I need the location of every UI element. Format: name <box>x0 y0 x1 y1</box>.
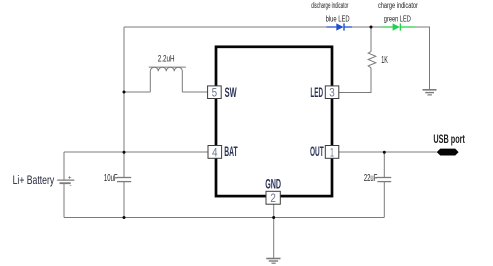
pin 4 box <box>208 145 222 159</box>
IC U1 body <box>216 47 332 196</box>
wire left rail lower (10uF bottom to bottom rail) <box>123 182 125 218</box>
svg-text:-: - <box>70 183 72 189</box>
svg-text:2: 2 <box>270 191 276 205</box>
LED D2 green (charge) <box>382 23 416 30</box>
wire bottom rail <box>64 217 384 219</box>
wire 22uF bottom stem <box>383 182 385 218</box>
svg-text:discharge indicator: discharge indicator <box>311 1 348 10</box>
junction node: OUT / 22uF <box>383 151 386 154</box>
wire battery bottom stem <box>63 183 65 217</box>
svg-text:5: 5 <box>212 86 218 100</box>
svg-text:10uF: 10uF <box>104 173 118 184</box>
junction node: BAT row / 10uF <box>123 151 126 154</box>
wire LED pin row to resistor <box>339 68 371 93</box>
svg-text:charge indicator: charge indicator <box>378 1 418 10</box>
wire inductor right to pin 5 <box>182 91 207 93</box>
battery BT1 <box>57 175 74 189</box>
wire top rail left <box>124 26 327 28</box>
wire GND pin stem <box>273 204 275 258</box>
svg-text:blue LED: blue LED <box>326 14 350 23</box>
svg-text:22uF: 22uF <box>364 173 377 184</box>
svg-text:+: + <box>68 175 72 181</box>
wire BAT row <box>64 151 208 153</box>
svg-text:Li+ Battery: Li+ Battery <box>13 173 55 187</box>
pin 2 box <box>266 191 280 205</box>
wire top rail right + drop to ground <box>415 27 429 90</box>
junction node: LEDs / resistor <box>370 26 373 29</box>
wire left rail upper (to 10uF top plate) <box>123 27 125 177</box>
svg-text:BAT: BAT <box>224 144 238 159</box>
wire inductor left <box>124 91 150 93</box>
resistor R1 1K <box>368 52 376 68</box>
svg-text:1K: 1K <box>381 54 388 66</box>
LED D1 blue (discharge) <box>327 23 353 30</box>
ground (bottom center) <box>266 259 280 264</box>
svg-text:LED: LED <box>310 85 323 100</box>
USB connector J1 <box>437 149 459 156</box>
svg-text:USB port: USB port <box>433 133 465 146</box>
wire OUT row to USB <box>339 151 437 153</box>
svg-text:green LED: green LED <box>384 14 411 23</box>
capacitor C1 10uF <box>117 178 131 182</box>
inductor L1 2.2uH <box>149 67 186 92</box>
capacitor C2 22uF <box>377 178 392 182</box>
wire 22uF top stem <box>383 152 385 177</box>
svg-text:1: 1 <box>330 145 334 159</box>
wire battery top stem <box>63 152 65 180</box>
svg-text:2.2uH: 2.2uH <box>158 54 175 64</box>
junction node: inductor tap <box>123 91 126 94</box>
wire top rail mid (between LEDs) <box>352 26 382 28</box>
svg-text:3: 3 <box>329 86 335 100</box>
svg-text:4: 4 <box>212 145 218 159</box>
junction node: bottom rail / 10uF <box>123 216 126 219</box>
svg-text:GND: GND <box>265 176 281 191</box>
junction node: bottom rail / GND <box>272 216 275 219</box>
ground (top right) <box>423 90 437 95</box>
svg-text:OUT: OUT <box>310 144 324 159</box>
pin 5 box <box>208 86 222 100</box>
svg-text:SW: SW <box>225 85 237 100</box>
wire resistor top to junction <box>370 27 372 52</box>
pin 1 box <box>325 145 339 159</box>
pin 3 box <box>325 86 339 100</box>
